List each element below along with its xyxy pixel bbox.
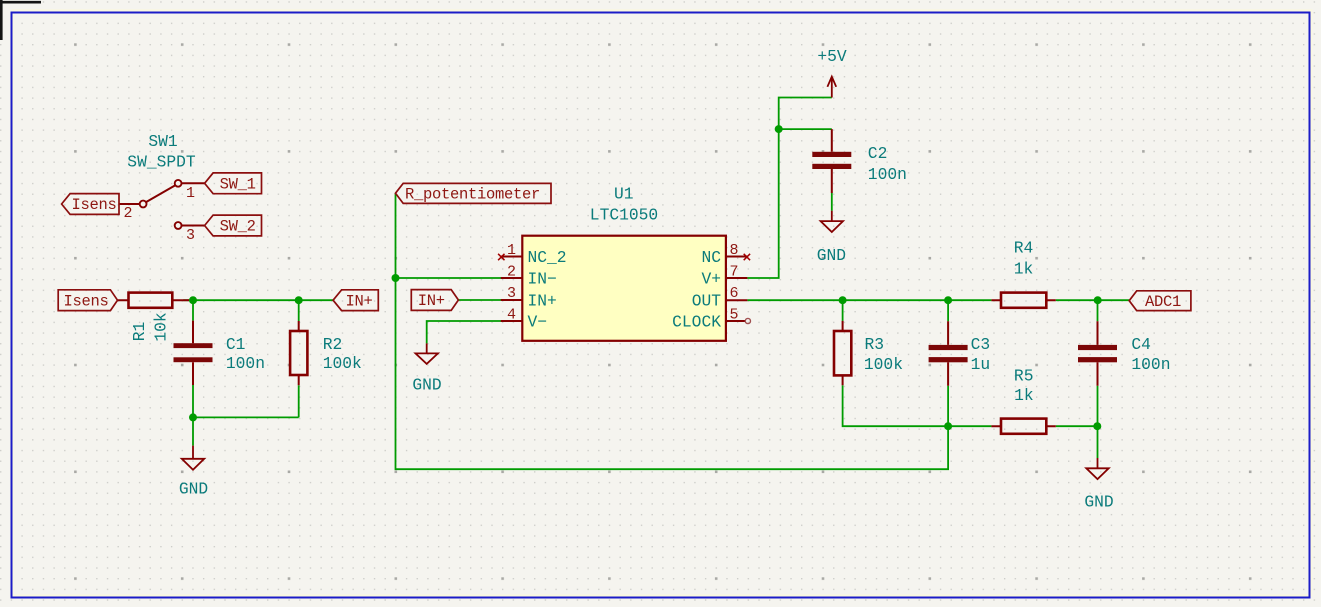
svg-text:SW_1: SW_1 xyxy=(220,176,256,194)
wire IN+ label to pin3 xyxy=(458,299,501,301)
capacitor C1 plates xyxy=(174,343,213,348)
wire C3 bottom xyxy=(947,386,949,427)
svg-text:3: 3 xyxy=(507,285,516,302)
svg-text:R3: R3 xyxy=(865,335,885,354)
svg-text:C2: C2 xyxy=(868,144,888,163)
svg-text:V−: V− xyxy=(528,313,548,332)
svg-text:SW_SPDT: SW_SPDT xyxy=(127,153,196,172)
svg-text:100n: 100n xyxy=(868,165,907,184)
resistor R5 pins xyxy=(991,425,1055,427)
svg-text:C4: C4 xyxy=(1131,335,1151,354)
window corner lines top-left xyxy=(0,0,41,40)
svg-text:V+: V+ xyxy=(701,270,721,289)
resistor R4 body xyxy=(1001,293,1046,308)
svg-text:1: 1 xyxy=(507,242,516,259)
svg-text:GND: GND xyxy=(1084,493,1113,512)
svg-text:R1: R1 xyxy=(130,322,149,342)
wire C4 top xyxy=(1097,300,1099,321)
node junction C4 bottom xyxy=(1093,422,1101,430)
svg-text:4: 4 xyxy=(507,306,516,323)
svg-text:ADC1: ADC1 xyxy=(1145,293,1181,311)
svg-text:1: 1 xyxy=(186,185,195,202)
switch SW1 common circle xyxy=(140,201,147,208)
node junction C3 top xyxy=(944,296,952,304)
wire C1 bottom to GND xyxy=(192,385,194,446)
svg-text:C1: C1 xyxy=(226,335,246,354)
global label ADC1 xyxy=(1129,291,1191,311)
switch SW1 common pin xyxy=(119,203,140,205)
svg-text:GND: GND xyxy=(179,480,208,499)
svg-text:8: 8 xyxy=(729,242,738,259)
switch SW1 lever xyxy=(146,186,175,203)
node junction +5V/C2 xyxy=(775,125,783,133)
svg-text:2: 2 xyxy=(507,263,516,280)
svg-text:Isens: Isens xyxy=(71,196,116,214)
wire R5 right to C4 bottom xyxy=(1056,425,1098,427)
wire junction to pin2 xyxy=(396,277,502,279)
svg-text:IN+: IN+ xyxy=(418,292,445,310)
resistor R1 pins xyxy=(118,299,190,301)
capacitor C4 plates xyxy=(1078,345,1117,350)
ground under C1 xyxy=(182,446,204,470)
svg-text:NC: NC xyxy=(701,248,721,267)
svg-text:IN−: IN− xyxy=(528,270,557,289)
node junction R1/C1 xyxy=(189,296,197,304)
wire R3 bottom to lower rail xyxy=(843,385,992,426)
switch SW1 throw1 circle xyxy=(175,180,182,187)
wire R3 top xyxy=(842,300,844,321)
svg-text:2: 2 xyxy=(123,205,132,222)
svg-text:SW1: SW1 xyxy=(148,132,177,151)
ground under pin4 V- xyxy=(416,343,438,364)
no-connect X pin1 xyxy=(498,254,504,260)
resistor R1 body xyxy=(129,293,173,308)
svg-text:IN+: IN+ xyxy=(345,292,372,310)
svg-text:+5V: +5V xyxy=(817,47,847,66)
wire main left horizontal Isens-R1 to IN+ xyxy=(183,299,333,301)
svg-text:SW_2: SW_2 xyxy=(220,218,256,236)
node junction C1 bottom xyxy=(189,413,197,421)
svg-text:100n: 100n xyxy=(1131,355,1170,374)
wire C1 top xyxy=(192,300,194,320)
node junction C3 bottom xyxy=(944,422,952,430)
svg-text:3: 3 xyxy=(186,227,195,244)
capacitor C3 plates xyxy=(929,345,968,350)
wire R2 top xyxy=(298,300,300,321)
switch SW1 pin1 line xyxy=(182,182,205,184)
svg-text:NC_2: NC_2 xyxy=(528,248,567,267)
svg-text:10k: 10k xyxy=(152,312,171,341)
svg-text:1k: 1k xyxy=(1014,259,1034,278)
resistor R4 pins xyxy=(991,299,1055,301)
wire OUT pin6 to R4 xyxy=(747,299,991,301)
op-amp U1 pin stubs right xyxy=(726,257,748,322)
wire bottom C1-R2 xyxy=(193,416,299,418)
ground under C2 xyxy=(821,211,843,232)
wire C4 junction to GND xyxy=(1097,426,1099,458)
node junction R3 top xyxy=(839,296,847,304)
resistor R3 pins xyxy=(842,321,844,385)
svg-text:R4: R4 xyxy=(1014,239,1034,258)
global label Isens at R1 xyxy=(58,290,117,311)
node junction R2/IN+ xyxy=(295,296,303,304)
svg-text:U1: U1 xyxy=(614,185,634,204)
wire pin7 up to +5V xyxy=(747,98,831,279)
svg-text:Isens: Isens xyxy=(63,292,108,310)
capacitor C2 plates xyxy=(812,152,851,157)
wire C2 bottom to GND xyxy=(831,193,833,211)
svg-text:R_potentiometer: R_potentiometer xyxy=(405,186,540,204)
svg-text:1u: 1u xyxy=(971,355,991,374)
wire C4 bottom xyxy=(1097,386,1099,427)
svg-text:1k: 1k xyxy=(1014,386,1034,405)
svg-text:R2: R2 xyxy=(323,335,343,354)
wire R_potentiometer vertical feedback xyxy=(396,193,949,469)
capacitor C3 pins xyxy=(947,321,949,385)
op-amp U1 pin stubs left xyxy=(501,257,523,322)
open pin circle CLOCK pin5 xyxy=(745,318,750,323)
ground bottom right under C4 xyxy=(1086,458,1108,479)
capacitor C2 pins xyxy=(831,129,833,193)
svg-text:C3: C3 xyxy=(971,335,991,354)
svg-text:OUT: OUT xyxy=(692,292,722,311)
resistor R2 body xyxy=(290,331,307,375)
wire pin4 to GND elbow xyxy=(427,321,501,343)
global label SW_1 xyxy=(205,173,262,194)
node junction pin2 tee xyxy=(392,274,400,282)
global label Isens at switch xyxy=(62,194,119,215)
no-connect X pin8 xyxy=(744,254,750,260)
svg-text:IN+: IN+ xyxy=(528,292,557,311)
svg-text:100k: 100k xyxy=(323,354,362,373)
svg-text:LTC1050: LTC1050 xyxy=(590,206,658,225)
wire R4 right to ADC1 xyxy=(1056,299,1129,301)
node junction C4 top xyxy=(1094,296,1102,304)
svg-text:7: 7 xyxy=(729,263,738,280)
resistor R2 pins xyxy=(298,321,300,385)
wire C3 top xyxy=(947,300,949,321)
global label SW_2 xyxy=(205,215,262,236)
switch SW1 pin3 line xyxy=(182,225,205,227)
svg-text:R5: R5 xyxy=(1014,366,1034,385)
switch SW1 throw2 circle xyxy=(175,222,182,229)
svg-text:GND: GND xyxy=(817,246,846,265)
svg-text:CLOCK: CLOCK xyxy=(672,313,721,332)
op-amp U1 body xyxy=(522,236,726,341)
capacitor C4 pins xyxy=(1097,321,1099,385)
wire R2 bottom xyxy=(298,385,300,417)
global label IN+ right of R2 xyxy=(333,290,378,311)
svg-text:6: 6 xyxy=(729,285,738,302)
svg-text:100n: 100n xyxy=(226,354,265,373)
global label R_potentiometer xyxy=(396,183,552,203)
global label IN+ at pin3 xyxy=(411,290,458,311)
svg-text:100k: 100k xyxy=(864,355,903,374)
resistor R3 body xyxy=(834,331,851,375)
resistor R5 body xyxy=(1001,419,1046,434)
power +5V symbol xyxy=(827,77,836,98)
capacitor C1 pins xyxy=(192,321,194,385)
svg-text:GND: GND xyxy=(412,376,441,395)
wire junction to C2 top xyxy=(779,128,832,130)
svg-text:5: 5 xyxy=(729,306,738,323)
